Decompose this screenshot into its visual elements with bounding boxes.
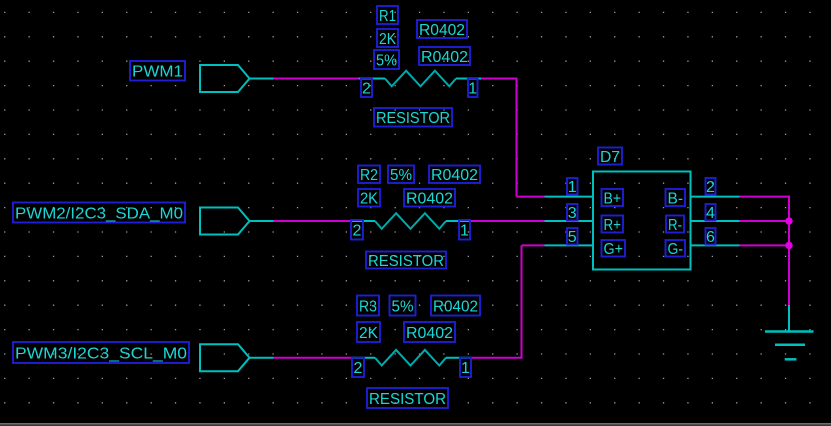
svg-text:R2: R2 xyxy=(360,167,378,184)
svg-text:2: 2 xyxy=(353,223,362,240)
svg-text:R1: R1 xyxy=(379,8,396,25)
svg-text:PWM3/I2C3_SCL_M0: PWM3/I2C3_SCL_M0 xyxy=(15,345,187,362)
svg-text:B-: B- xyxy=(668,190,684,207)
svg-text:5%: 5% xyxy=(376,52,397,69)
svg-text:R0402: R0402 xyxy=(406,325,453,342)
svg-text:6: 6 xyxy=(706,229,715,246)
svg-text:RESISTOR: RESISTOR xyxy=(368,253,444,270)
svg-text:2: 2 xyxy=(354,360,363,377)
svg-text:PWM1: PWM1 xyxy=(132,64,183,81)
svg-text:1: 1 xyxy=(468,80,477,97)
svg-text:1: 1 xyxy=(568,179,577,196)
svg-text:R3: R3 xyxy=(359,298,377,315)
svg-text:G+: G+ xyxy=(604,241,624,258)
svg-text:PWM2/I2C3_SDA_M0: PWM2/I2C3_SDA_M0 xyxy=(15,205,183,222)
svg-text:R0402: R0402 xyxy=(431,167,478,184)
svg-text:R0402: R0402 xyxy=(419,22,465,39)
svg-text:2K: 2K xyxy=(379,31,396,48)
svg-text:RESISTOR: RESISTOR xyxy=(376,110,450,127)
svg-text:2K: 2K xyxy=(359,325,378,342)
svg-text:2: 2 xyxy=(362,80,371,97)
svg-text:2: 2 xyxy=(706,179,715,196)
svg-text:2K: 2K xyxy=(360,191,378,208)
svg-text:B+: B+ xyxy=(604,190,622,207)
svg-text:1: 1 xyxy=(460,223,469,240)
svg-text:G-: G- xyxy=(668,241,684,258)
svg-text:D7: D7 xyxy=(600,149,620,166)
svg-text:R0402: R0402 xyxy=(433,298,478,315)
svg-text:5%: 5% xyxy=(392,298,414,315)
svg-text:5%: 5% xyxy=(390,167,412,184)
svg-text:R-: R- xyxy=(668,217,682,234)
svg-text:3: 3 xyxy=(568,205,577,222)
svg-text:R0402: R0402 xyxy=(406,191,453,208)
svg-text:4: 4 xyxy=(706,205,715,222)
svg-text:R+: R+ xyxy=(604,217,622,234)
svg-text:1: 1 xyxy=(461,360,470,377)
svg-text:RESISTOR: RESISTOR xyxy=(369,391,446,408)
svg-text:5: 5 xyxy=(568,229,577,246)
svg-text:R0402: R0402 xyxy=(421,49,468,66)
